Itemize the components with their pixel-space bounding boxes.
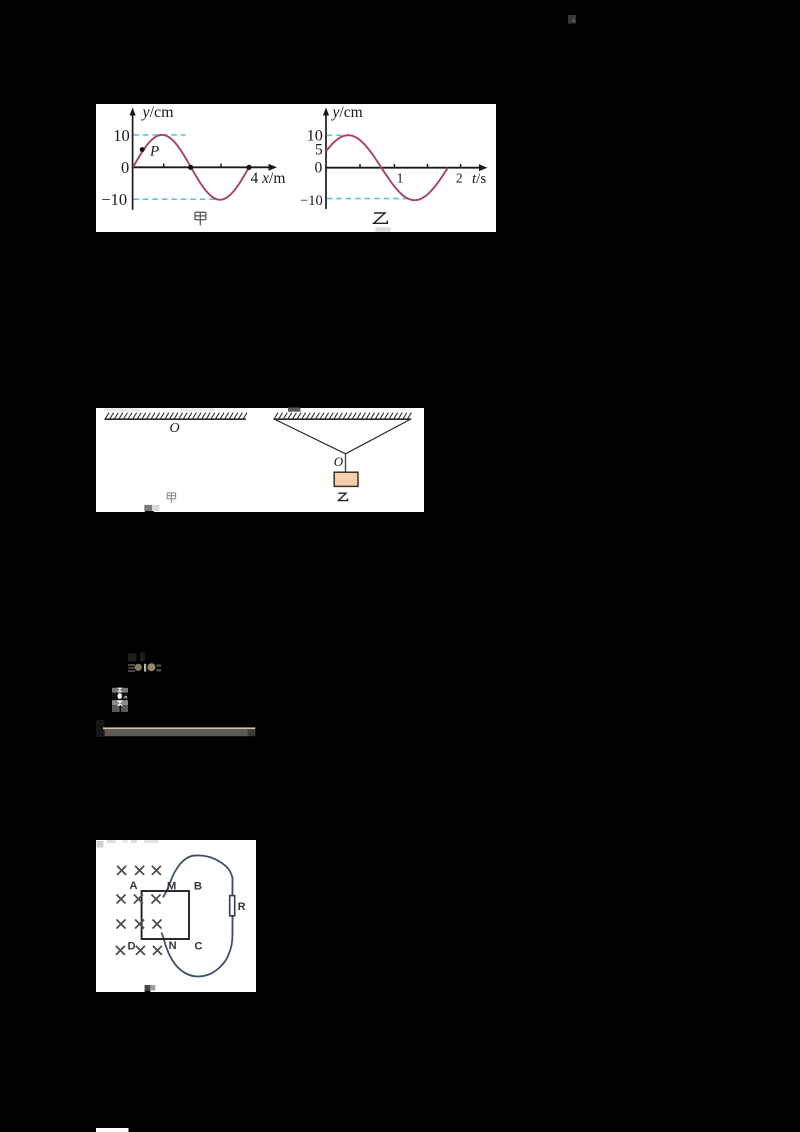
svg-text:A: A <box>129 880 137 892</box>
svg-text:R: R <box>238 901 246 913</box>
svg-text:O: O <box>169 421 179 436</box>
svg-text:2: 2 <box>456 171 463 186</box>
svg-text:4 x/m: 4 x/m <box>251 170 286 187</box>
svg-text:B: B <box>194 881 202 893</box>
svg-text:5: 5 <box>315 142 323 159</box>
svg-text:P: P <box>149 144 159 160</box>
svg-text:y/cm: y/cm <box>141 104 175 121</box>
svg-text:−10: −10 <box>101 190 127 209</box>
svg-text:D: D <box>128 940 136 952</box>
svg-text:0: 0 <box>315 160 323 177</box>
svg-text:1: 1 <box>397 171 404 186</box>
svg-text:10: 10 <box>113 126 130 145</box>
svg-text:C: C <box>194 940 202 952</box>
svg-text:M: M <box>167 881 176 893</box>
svg-text:O: O <box>334 454 344 469</box>
svg-text:y/cm: y/cm <box>331 104 363 121</box>
svg-text:t/s: t/s <box>472 171 486 187</box>
svg-text:−10: −10 <box>300 193 323 209</box>
svg-text:N: N <box>169 940 177 952</box>
svg-text:0: 0 <box>121 158 129 177</box>
